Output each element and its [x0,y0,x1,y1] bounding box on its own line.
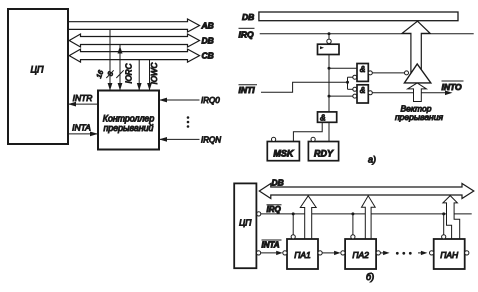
big bus drive arrow [402,21,430,74]
wire U6 to RDY [328,122,330,141]
INTA chain CPU to PA1 [257,251,261,255]
wire INTI to gate2 bubble [348,88,353,90]
bus DB (a) [259,12,458,21]
INTA chain PA1 to PA2 [318,251,322,255]
svg-text:INTO: INTO [442,82,463,92]
AND gate U5 [357,85,368,103]
gate1 output bubble [368,71,372,75]
svg-text:IRQN: IRQN [201,136,221,145]
AND gate U6 [318,112,337,122]
node trunk-gate2 [328,95,331,98]
wire IRQ (b) [261,213,472,215]
svg-text:AB: AB [201,21,214,31]
wire U6 to MSK [293,122,322,141]
svg-text:прерывания: прерывания [395,112,443,122]
latch box (request trigger) [318,44,340,54]
svg-text:IRQ: IRQ [239,29,255,39]
PAN out bubble [465,251,469,255]
svg-text:&: & [360,86,365,95]
svg-text:INTR: INTR [73,93,93,103]
svg-text:ПА1: ПА1 [294,250,311,260]
svg-text:DB: DB [242,12,254,22]
PA2 IRQ tap [351,235,355,239]
wire INTO [372,92,450,94]
CPU box U1 (ЦП) [8,9,68,144]
PA1 bus arrow [300,196,316,239]
MSK register [267,142,299,161]
svg-text:ЦП: ЦП [239,218,252,228]
bus width slash 8 [116,70,123,78]
bus width slash 16 [106,70,113,78]
svg-text:INTA: INTA [262,240,280,249]
wire IRQ0 [159,99,200,101]
chain ellipsis [396,252,399,255]
INTA chain PA2 out [376,251,380,255]
wire INTI to gate1 bubble [348,76,353,78]
wire INTR [68,103,98,105]
svg-text:RDY: RDY [314,149,334,159]
bus AB [68,19,200,32]
wire IRQ (a) [260,33,474,35]
CPU box (b) [234,183,256,268]
wire IORC [138,60,140,91]
svg-text:б): б) [366,272,374,282]
PAN box [434,239,465,269]
svg-text:INTA: INTA [72,123,91,133]
svg-text:ПАН: ПАН [440,250,459,260]
INTA chain into PAN [418,252,424,254]
ellipsis dots [187,116,190,119]
bus DB (b) [259,184,474,199]
svg-text:IORC: IORC [125,63,134,83]
wire IOWC [149,60,151,91]
wire address AB to controller [109,29,111,90]
trunk wire from latch [328,55,330,112]
wire gate1 to buffer [372,72,404,74]
wire trunk to gate2 (bubbled) [329,95,353,97]
svg-text:ЦП: ЦП [30,65,44,75]
junction dot on IRQ [328,32,331,35]
svg-text:CB: CB [202,51,214,61]
svg-text:прерываний: прерываний [104,123,154,133]
PA2 bus arrow [362,196,376,239]
node trunk-gate1 [328,67,331,70]
node INTI split [346,81,349,84]
IRQ output bubble at CPU [257,212,261,216]
svg-text:MSK: MSK [273,149,295,159]
PAN IRQ tap [442,235,446,239]
vector data arrow (below triangle) [408,83,427,102]
svg-text:&: & [360,65,365,74]
buffer triangle U3 [404,64,430,83]
svg-text:IOWC: IOWC [150,62,159,84]
svg-text:DB: DB [272,177,284,187]
PAN stepped bus arrow [443,196,460,239]
svg-text:INTI: INTI [239,85,256,95]
PA1 box [287,239,318,269]
wire INTA [68,133,98,135]
RDY register [308,142,338,161]
wire data DB to controller [119,45,121,91]
interrupt controller box U2 [98,91,159,150]
svg-text:&: & [320,113,325,122]
wire INTI [261,82,348,92]
PA1 IRQ tap [291,235,295,239]
svg-text:IRQ: IRQ [267,205,282,214]
PA2 box [345,239,376,269]
svg-text:IRQ0: IRQ0 [201,96,220,105]
wire trunk to gate1 [329,67,357,69]
svg-text:а): а) [368,155,376,165]
svg-text:DB: DB [202,36,214,46]
latch input bubble [328,34,330,39]
wire IRQN [159,138,200,140]
bus DB [69,34,199,47]
bus CB [69,49,199,62]
AND gate U4 [357,64,368,82]
gate2 output bubble [368,91,372,95]
svg-text:ПА2: ПА2 [352,250,369,260]
buffer enable bubble [405,71,409,75]
